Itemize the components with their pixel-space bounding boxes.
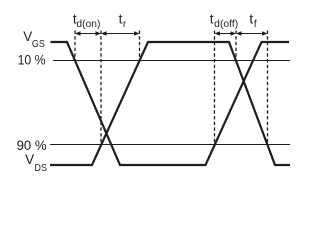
wire td(off) dimension arrow [215,31,237,36]
svg-text:r: r [123,19,127,30]
svg-text:V: V [23,29,32,44]
svg-text:d(off): d(off) [214,19,238,30]
svg-text:f: f [254,19,257,30]
svg-text:DS: DS [35,163,48,174]
svg-text:t: t [249,11,253,26]
svg-text:t: t [210,11,214,26]
node 10% reference line [53,60,290,62]
wire tf dimension arrow [236,31,268,36]
svg-text:V: V [25,152,34,167]
wire td(on) dimension arrow [75,31,101,36]
svg-text:GS: GS [32,39,45,50]
node dashed marker d2 [100,31,102,145]
svg-text:d(on): d(on) [76,19,100,30]
node dashed marker d6 [267,31,269,145]
wire VGS waveform [51,42,290,165]
wire tr dimension arrow [101,31,140,36]
node dashed marker d5 [235,31,237,61]
svg-text:10 %: 10 % [18,52,46,67]
node dashed marker d3 [139,31,141,61]
node 90% reference line [50,144,290,146]
svg-text:90 %: 90 % [17,138,47,153]
node dashed marker d1 [74,31,76,61]
wire VDS waveform [50,42,290,165]
node dashed marker d4 [214,31,216,145]
